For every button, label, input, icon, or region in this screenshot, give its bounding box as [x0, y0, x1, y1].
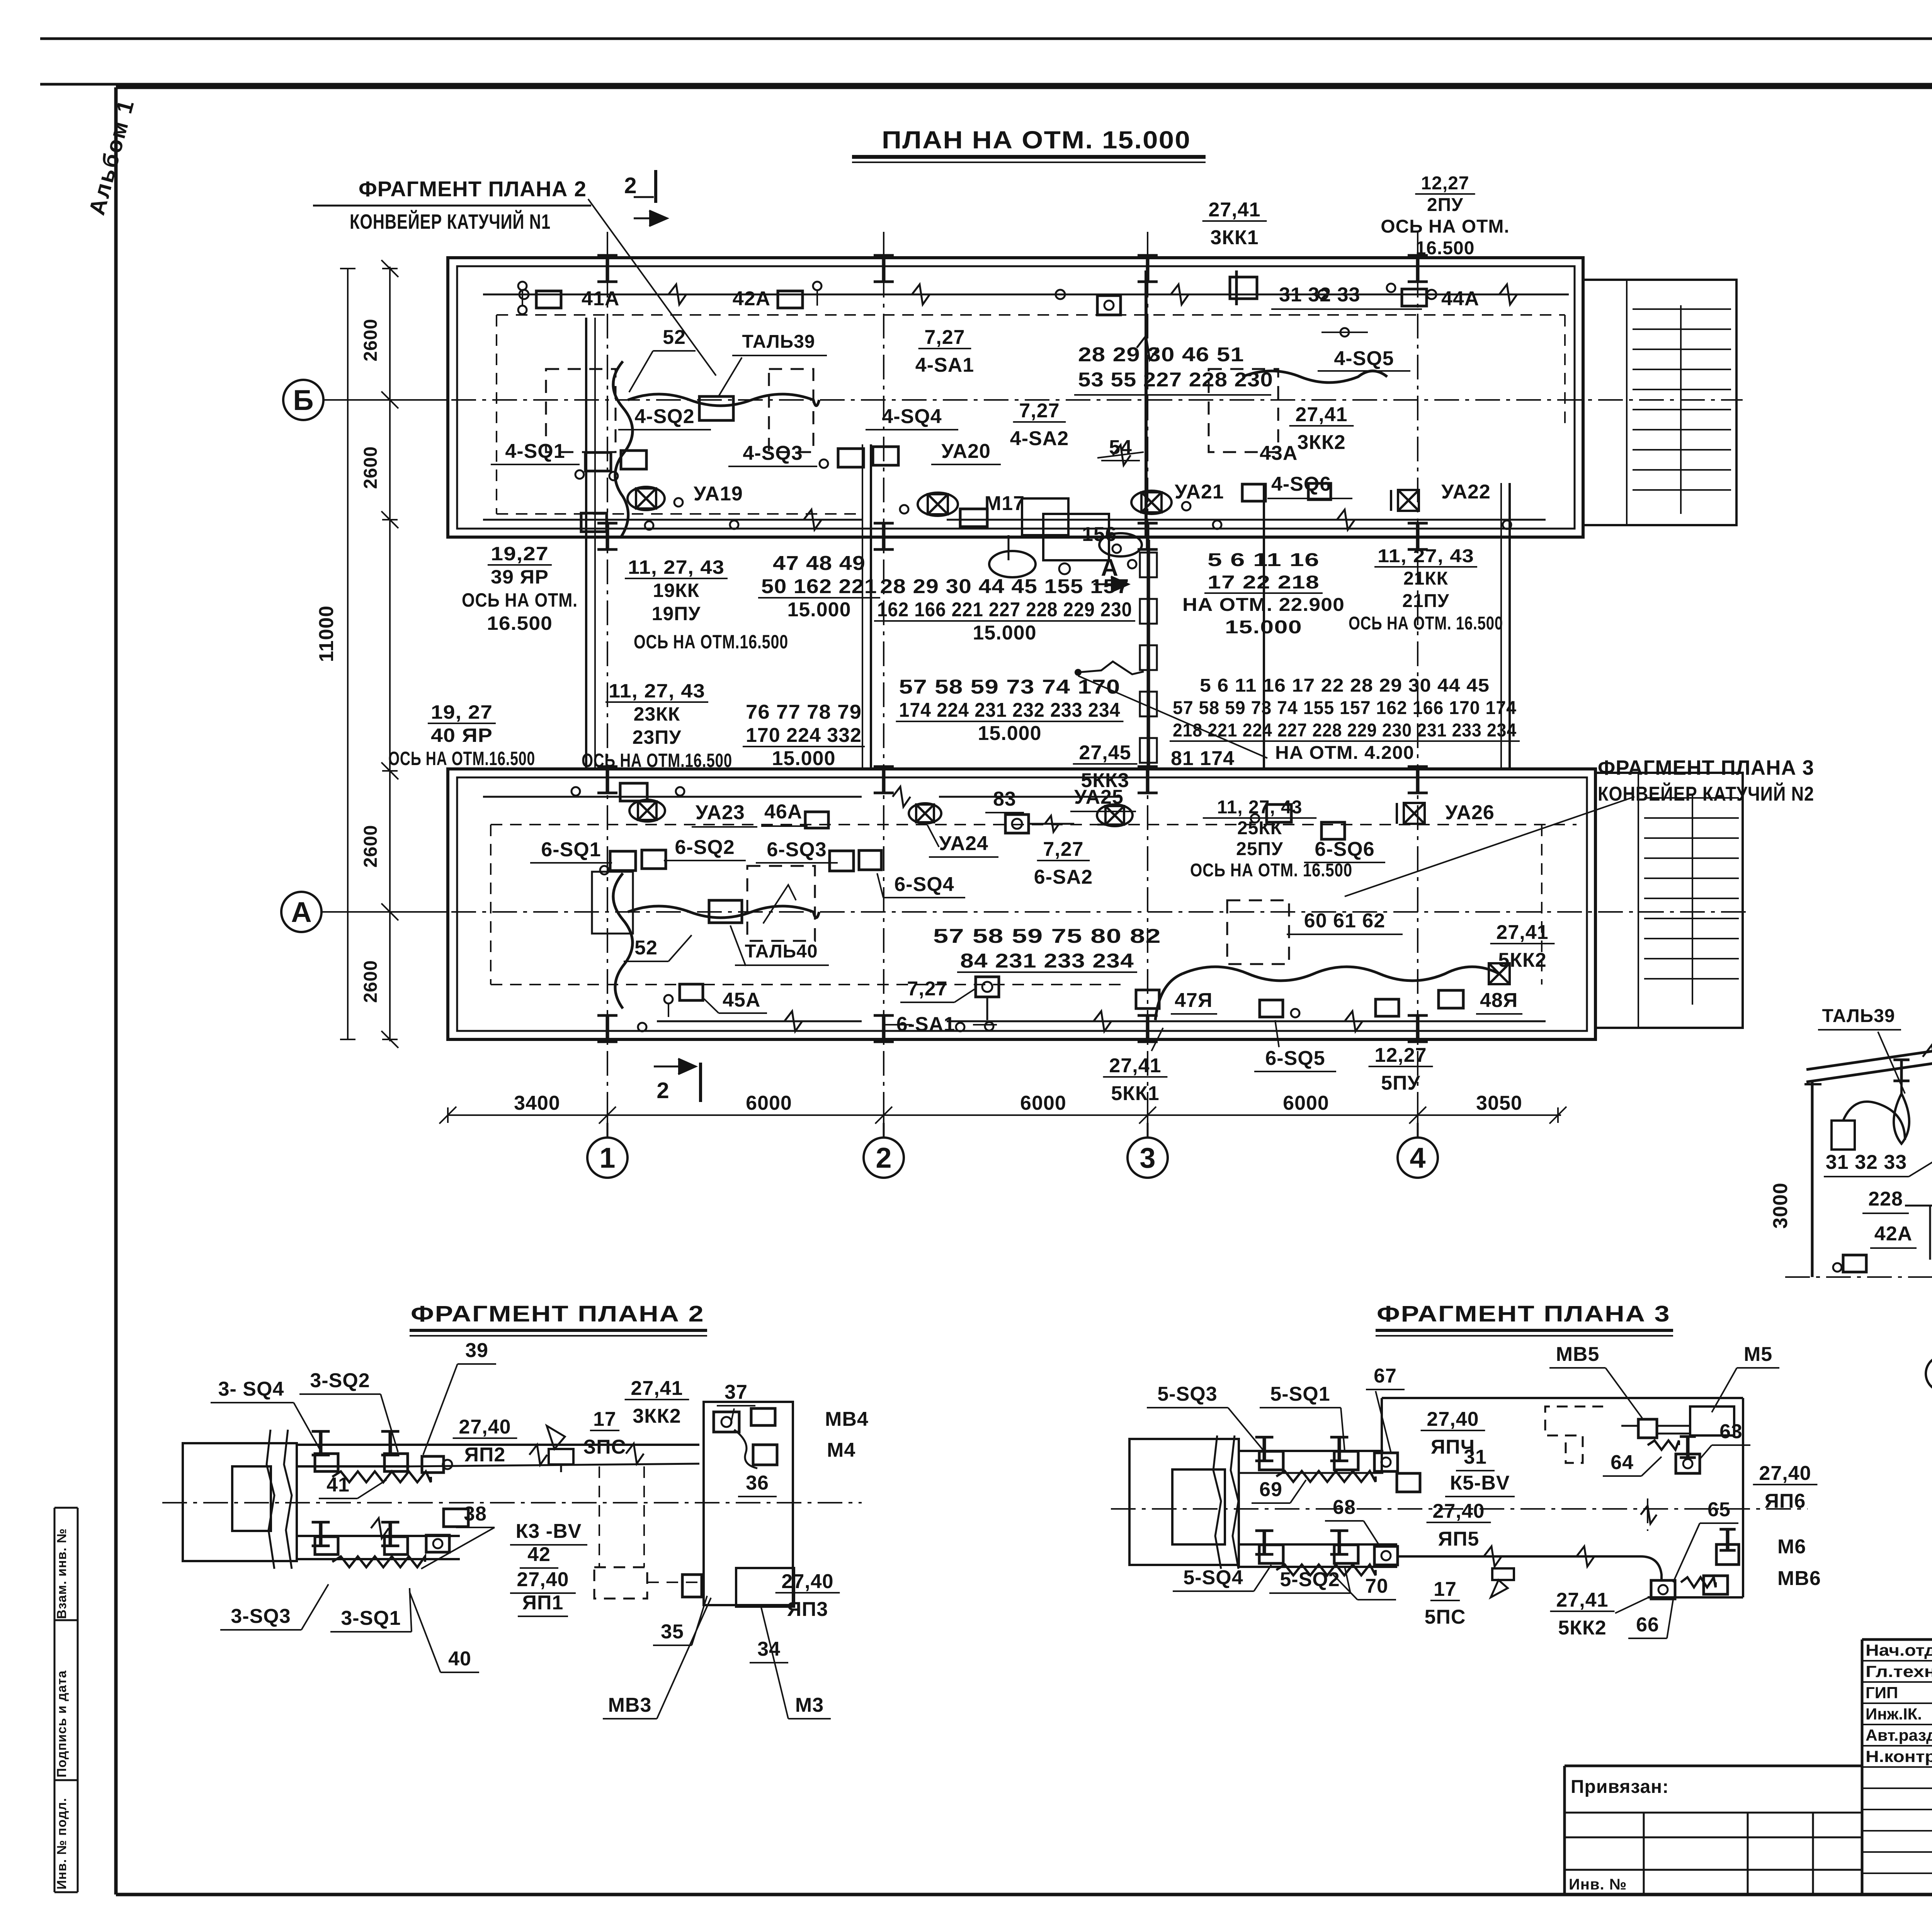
label МВ5: [1549, 1343, 1642, 1418]
switch 6-SQ1 пара: [600, 850, 666, 874]
frag3 bottom hangers: [1255, 1531, 1398, 1565]
device 83: [1005, 815, 1074, 833]
svg-text:ТАЛЬ40: ТАЛЬ40: [745, 941, 818, 962]
svg-text:УА23: УА23: [696, 801, 745, 824]
label 54: [1101, 436, 1140, 461]
svg-text:КОНВЕЙЕР КАТУЧИЙ N2: КОНВЕЙЕР КАТУЧИЙ N2: [1598, 782, 1814, 805]
lower bay cabinet 52: [592, 872, 633, 934]
svg-text:3КК2: 3КК2: [1297, 431, 1345, 454]
svg-text:54: 54: [1109, 436, 1132, 459]
solenoid УА19: [628, 487, 683, 510]
label ТАЛЬ39: [719, 332, 827, 396]
label М17: [985, 492, 1025, 515]
svg-text:15.000: 15.000: [772, 747, 835, 770]
label М3: [761, 1607, 831, 1719]
label 67: [1366, 1365, 1405, 1453]
svg-text:ОСЬ НА ОТМ.: ОСЬ НА ОТМ.: [1381, 216, 1509, 237]
svg-text:84 231 233 234: 84 231 233 234: [960, 950, 1134, 972]
frag3 panel frame: [1382, 1398, 1743, 1597]
device 44А: [1387, 284, 1427, 306]
svg-text:170 224 332: 170 224 332: [746, 724, 862, 747]
svg-text:15.000: 15.000: [787, 599, 851, 621]
flag 5ПС: [1491, 1568, 1514, 1597]
svg-text:3-SQ1: 3-SQ1: [341, 1607, 401, 1629]
hoist hook 1: [1893, 1060, 1910, 1144]
label 5-SQ3: [1147, 1383, 1265, 1453]
frag3 long cable: [1397, 1546, 1662, 1580]
upper hall bottom wire: [483, 509, 1546, 532]
grid circle 2: [864, 1123, 904, 1178]
svg-text:5 6 11 16 17 22 28 29 30 44 45: 5 6 11 16 17 22 28 29 30 44 45: [1200, 675, 1490, 696]
svg-text:2600: 2600: [361, 960, 381, 1003]
svg-text:4-SQ6: 4-SQ6: [1271, 473, 1331, 495]
frag2 panel squiggle: [734, 1430, 757, 1468]
svg-text:ТАЛЬ39: ТАЛЬ39: [742, 332, 815, 352]
svg-text:2600: 2600: [361, 446, 381, 489]
label 6-SQ6: [1304, 838, 1385, 862]
device 47Я: [1136, 990, 1159, 1009]
svg-text:6-SQ3: 6-SQ3: [767, 838, 827, 861]
label привязан: [1571, 1777, 1669, 1797]
grid axis 1 centerline: [607, 232, 608, 1136]
left dimension 11000: [315, 269, 355, 1039]
attachment box: [1565, 1766, 1862, 1895]
device 43А: [1308, 483, 1331, 500]
label 76 77 78 79: [743, 701, 865, 770]
label 48Я: [1476, 989, 1522, 1014]
device 4-SQ5 node: [1321, 328, 1368, 337]
label К5-BV: [1445, 1472, 1515, 1497]
svg-text:23ПУ: 23ПУ: [633, 726, 682, 748]
svg-text:М3: М3: [795, 1694, 824, 1716]
frag2 К3-BV box: [444, 1509, 468, 1527]
svg-text:6-SQ2: 6-SQ2: [675, 836, 735, 859]
label УА21: [1175, 481, 1224, 503]
frag2 machine body: [183, 1430, 297, 1569]
frag3 К5-BV box: [1397, 1473, 1420, 1492]
upper crane zone dashed: [497, 315, 1565, 514]
label fragment plan 2 head: [313, 177, 591, 233]
upper wall wire: [483, 284, 1569, 304]
frag3 bottom squiggle: [1276, 1565, 1376, 1575]
svg-text:45А: 45А: [723, 989, 760, 1011]
svg-text:39 ЯР: 39 ЯР: [491, 566, 549, 588]
svg-text:Авт.разд.: Авт.разд.: [1866, 1726, 1932, 1744]
svg-text:НА ОТМ. 4.200: НА ОТМ. 4.200: [1275, 743, 1414, 763]
label 27,41 3КК2: [1289, 403, 1354, 454]
frag3 cable box 66: [1651, 1580, 1675, 1599]
label 6-SA1: [885, 1013, 997, 1036]
album note: [84, 96, 139, 218]
label ТАЛЬ39 sec: [1818, 1006, 1905, 1094]
svg-text:5-SQ3: 5-SQ3: [1157, 1383, 1217, 1405]
left margin stamp column: [54, 1508, 78, 1892]
section devices left floor: [1833, 1179, 1932, 1272]
frag3 centerline: [1111, 1508, 1808, 1510]
frag2 top hangers: [312, 1431, 452, 1473]
wall columns: [597, 255, 1428, 1042]
label 11,27,43 25КК: [1203, 797, 1316, 859]
label 28 29 30 46 51: [1078, 344, 1244, 366]
label 3-SQ3: [220, 1584, 328, 1630]
grid circle Б sec: [1926, 1340, 1932, 1391]
frag3 top squiggle: [1276, 1471, 1376, 1482]
grid circle 3: [1128, 1123, 1168, 1178]
svg-text:ЯП3: ЯП3: [787, 1598, 828, 1621]
label 52 upper: [629, 326, 696, 392]
svg-text:2: 2: [624, 173, 637, 198]
solenoid УА23: [629, 800, 665, 821]
label 6-SQ4: [877, 873, 965, 898]
svg-text:6-SQ5: 6-SQ5: [1265, 1047, 1325, 1070]
svg-text:31 32 33: 31 32 33: [1826, 1151, 1907, 1173]
svg-text:МВ3: МВ3: [608, 1694, 652, 1716]
frag3 М6 squiggle: [1681, 1577, 1716, 1587]
svg-text:7,27: 7,27: [924, 326, 965, 349]
label 65: [1673, 1498, 1738, 1582]
frag3 М5 links: [1621, 1426, 1690, 1434]
svg-text:ОСЬ НА ОТМ.: ОСЬ НА ОТМ.: [462, 589, 578, 611]
label ТАЛЬ40: [730, 925, 829, 966]
solenoid УА26: [1397, 803, 1425, 824]
svg-text:162 166 221 227 228 229 230: 162 166 221 227 228 229 230: [877, 599, 1132, 621]
label 42А: [733, 287, 770, 310]
frag2 bottom conveyor: [297, 1518, 460, 1559]
svg-text:МВ4: МВ4: [825, 1408, 869, 1430]
label 27,41 5КК2 f3: [1550, 1589, 1652, 1639]
frag2 centerline: [162, 1502, 862, 1503]
label 27,41 5КК2 low: [1490, 921, 1555, 971]
svg-text:50 162 221: 50 162 221: [761, 575, 877, 598]
svg-text:46А: 46А: [764, 801, 802, 823]
svg-text:5КК2: 5КК2: [1498, 949, 1546, 971]
svg-text:МВ5: МВ5: [1556, 1343, 1600, 1366]
label 31 f3: [1456, 1446, 1495, 1471]
svg-text:М4: М4: [827, 1439, 855, 1461]
frag2 dashed block: [594, 1466, 699, 1599]
label 11,27,43 21КК: [1349, 546, 1503, 634]
hoist ТАЛЬ40 box: [709, 900, 742, 923]
frag3 dashed block: [1545, 1406, 1603, 1463]
svg-text:15.000: 15.000: [978, 722, 1041, 745]
device 6-SQ5: [1260, 1000, 1299, 1017]
svg-text:57 58 59 73 74 170: 57 58 59 73 74 170: [899, 676, 1121, 698]
label 4-SQ6: [1267, 473, 1352, 498]
title fragment 3: [1376, 1301, 1673, 1336]
label 31 32 33 sec: [1824, 1151, 1932, 1177]
svg-text:6000: 6000: [1020, 1092, 1066, 1114]
frag2 bottom hangers: [312, 1522, 449, 1554]
frag3 top hangers: [1255, 1437, 1398, 1471]
label 11,27,43 19КК: [625, 556, 728, 624]
label 27,45 5КК3: [1073, 742, 1138, 792]
svg-text:ОСЬ НА ОТМ.16.500: ОСЬ НА ОТМ.16.500: [388, 748, 535, 769]
switch 4-SQ1 пара: [575, 451, 646, 480]
title fragment 2: [410, 1301, 707, 1336]
svg-text:Привязан:: Привязан:: [1571, 1777, 1669, 1797]
label 6-SQ1: [530, 838, 612, 863]
svg-text:ФРАГМЕНТ ПЛАНА 3: ФРАГМЕНТ ПЛАНА 3: [1377, 1301, 1670, 1327]
svg-text:28 29 30 44 45 155 157: 28 29 30 44 45 155 157: [880, 575, 1129, 598]
lower hall bottom wire: [638, 1011, 1546, 1031]
svg-text:ЯП1: ЯП1: [522, 1592, 564, 1614]
label 40: [410, 1592, 479, 1672]
frag2 М3 box: [736, 1568, 794, 1607]
svg-text:27,41: 27,41: [631, 1377, 683, 1400]
label 39: [423, 1339, 496, 1455]
svg-text:27,41: 27,41: [1109, 1054, 1161, 1077]
frag2 top squiggle: [332, 1471, 431, 1482]
frag3 machine body: [1129, 1435, 1239, 1569]
bottom dimension chain: [439, 1092, 1566, 1124]
svg-text:УА26: УА26: [1445, 801, 1495, 824]
label МВ3: [603, 1598, 711, 1719]
device 48Я: [1439, 990, 1463, 1008]
cable riser axis 3: [1075, 540, 1267, 769]
svg-text:5 6 11 16: 5 6 11 16: [1207, 550, 1320, 570]
svg-text:11, 27, 43: 11, 27, 43: [1378, 546, 1474, 566]
section mark 2 bottom: [654, 1059, 701, 1103]
label 12,27 2ПУ: [1381, 173, 1509, 259]
label 4-SQ4: [866, 405, 958, 430]
svg-text:19КК: 19КК: [653, 580, 700, 601]
motor М17 group: [989, 498, 1142, 577]
grid circle 4: [1398, 1123, 1438, 1178]
label 5-SQ2: [1269, 1567, 1350, 1593]
label 12,27 5ПУ: [1369, 1044, 1433, 1094]
svg-text:ФРАГМЕНТ ПЛАНА 3: ФРАГМЕНТ ПЛАНА 3: [1598, 756, 1814, 779]
frag2 МВ4 box: [751, 1408, 775, 1425]
svg-text:42А: 42А: [733, 287, 770, 310]
svg-text:60 61 62: 60 61 62: [1304, 910, 1385, 932]
svg-text:5КК1: 5КК1: [1111, 1082, 1159, 1105]
svg-text:228: 228: [1868, 1188, 1903, 1210]
svg-text:Взам. инв. №: Взам. инв. №: [54, 1528, 69, 1619]
svg-text:ПЛАН НА ОТМ. 15.000: ПЛАН НА ОТМ. 15.000: [882, 126, 1191, 154]
label 3-SQ1: [330, 1588, 412, 1632]
label 83: [985, 788, 1024, 813]
svg-text:53 55 227 228 230: 53 55 227 228 230: [1078, 369, 1273, 391]
title block frame: [1565, 1639, 1932, 1895]
svg-text:6000: 6000: [746, 1092, 792, 1114]
svg-text:НА ОТМ. 22.900: НА ОТМ. 22.900: [1182, 595, 1345, 615]
frag3 МВ5 box: [1638, 1419, 1657, 1438]
svg-text:2: 2: [876, 1142, 891, 1174]
svg-text:38: 38: [464, 1503, 487, 1525]
label 41: [319, 1474, 386, 1498]
fragment 3 leader: [1345, 797, 1634, 896]
label 27,40 ЯП6: [1753, 1462, 1818, 1512]
svg-text:4-SA2: 4-SA2: [1010, 427, 1069, 450]
lower hall stairwell: [1595, 773, 1743, 1028]
svg-text:5-SQ2: 5-SQ2: [1280, 1568, 1340, 1591]
svg-text:27,41: 27,41: [1556, 1589, 1608, 1611]
label 57 58 59 lower: [933, 925, 1161, 972]
svg-text:УА19: УА19: [694, 483, 743, 505]
svg-text:3КК1: 3КК1: [1210, 226, 1259, 249]
svg-text:УА25: УА25: [1074, 786, 1124, 808]
label 4-SQ1: [491, 440, 580, 464]
svg-text:А: А: [291, 896, 311, 928]
label ЯП1: [518, 1592, 568, 1616]
grid circle А: [281, 892, 448, 932]
svg-text:27,40: 27,40: [1427, 1408, 1479, 1430]
svg-text:42: 42: [527, 1543, 551, 1566]
svg-text:7,27: 7,27: [1019, 400, 1060, 422]
label 228 sec: [1862, 1188, 1909, 1213]
label 41А: [582, 287, 619, 310]
svg-text:156: 156: [1082, 523, 1117, 546]
lower hall top wire: [483, 783, 1121, 807]
label 27,40 ЯП2: [453, 1416, 517, 1466]
svg-text:27,41: 27,41: [1208, 199, 1260, 221]
svg-text:19,27: 19,27: [491, 543, 549, 565]
svg-text:31: 31: [1464, 1446, 1487, 1468]
device 6-SA2: [1097, 824, 1121, 826]
svg-text:2: 2: [656, 1078, 669, 1103]
svg-text:3КК2: 3КК2: [633, 1405, 681, 1427]
svg-text:М17: М17: [985, 492, 1025, 515]
frag3 dash leader: [1641, 1498, 1656, 1531]
svg-text:УА22: УА22: [1441, 481, 1491, 503]
svg-text:37: 37: [724, 1381, 748, 1403]
label УА19: [694, 483, 743, 505]
frag2 МВ3 box: [682, 1575, 702, 1597]
svg-text:3050: 3050: [1476, 1092, 1522, 1114]
svg-text:4-SQ5: 4-SQ5: [1334, 347, 1394, 370]
solenoid УА20: [900, 493, 958, 516]
svg-text:УА21: УА21: [1175, 481, 1224, 503]
svg-text:81 174: 81 174: [1171, 747, 1235, 770]
svg-text:ФРАГМЕНТ ПЛАНА 2: ФРАГМЕНТ ПЛАНА 2: [411, 1301, 704, 1327]
device 46А: [805, 812, 828, 828]
device 45А: [664, 984, 703, 1017]
svg-text:17 22 218: 17 22 218: [1207, 572, 1320, 593]
label 5 6 11 16 22900: [1182, 550, 1345, 638]
label 81 174: [1171, 747, 1235, 770]
svg-text:11, 27, 43: 11, 27, 43: [609, 680, 705, 702]
svg-text:К3 -BV: К3 -BV: [516, 1520, 582, 1543]
svg-text:21ПУ: 21ПУ: [1402, 591, 1449, 611]
device 7,27 lower: [976, 977, 999, 1031]
frag3 М5 box: [1690, 1406, 1734, 1435]
svg-text:27,40: 27,40: [781, 1570, 833, 1593]
svg-text:43А: 43А: [1260, 442, 1298, 464]
label 60 61 62: [1287, 910, 1403, 934]
svg-text:28 29 30 46 51: 28 29 30 46 51: [1078, 344, 1244, 366]
svg-text:6-SQ4: 6-SQ4: [894, 873, 954, 896]
label 47Я: [1171, 989, 1217, 1014]
svg-text:67: 67: [1374, 1365, 1397, 1387]
frag2 М4 box: [753, 1445, 777, 1465]
grid axis 2 centerline: [883, 232, 884, 1136]
svg-text:27,40: 27,40: [1759, 1462, 1811, 1485]
svg-text:25КК: 25КК: [1237, 818, 1282, 838]
axis Б centerline: [328, 399, 1743, 401]
hoist ТАЛЬ39 cable: [613, 361, 819, 537]
label 27,40 ЯП4: [1421, 1408, 1485, 1458]
svg-text:23КК: 23КК: [634, 703, 680, 725]
label К3-BV f2: [510, 1520, 587, 1545]
upper dashed bay 1: [546, 369, 616, 452]
label 53 55 227 228 230: [1074, 369, 1273, 395]
view mark А: [1094, 554, 1128, 592]
label 156: [1082, 523, 1117, 546]
label 52 lower: [624, 935, 692, 961]
label 44А: [1441, 287, 1479, 310]
svg-text:Гл.техн.: Гл.техн.: [1866, 1662, 1932, 1680]
label 7,27 4-SA2: [1010, 400, 1069, 450]
label 5-SQ4: [1173, 1565, 1271, 1591]
svg-text:19, 27: 19, 27: [431, 701, 493, 723]
label 3-SQ2: [299, 1369, 398, 1452]
svg-text:40 ЯР: 40 ЯР: [431, 724, 493, 746]
svg-text:Н.контр.: Н.контр.: [1866, 1747, 1932, 1765]
svg-text:63: 63: [1719, 1420, 1743, 1443]
svg-text:27,40: 27,40: [517, 1568, 569, 1591]
lower long cable wave: [1155, 967, 1499, 1020]
svg-text:Б: Б: [293, 384, 313, 416]
label big row 4.200: [1170, 675, 1520, 763]
svg-text:40: 40: [448, 1648, 471, 1670]
svg-text:27,40: 27,40: [1432, 1500, 1485, 1522]
section 3КК1 device: [1832, 1102, 1905, 1150]
label УА26: [1445, 801, 1495, 824]
label УА25: [1070, 786, 1136, 811]
device 25КК cluster: [1251, 804, 1291, 823]
svg-text:2ПУ: 2ПУ: [1427, 195, 1463, 215]
hoist ТАЛЬ39 box: [699, 396, 733, 420]
svg-text:57 58 59 75 80 82: 57 58 59 75 80 82: [933, 925, 1161, 947]
axis А centerline: [328, 911, 1750, 913]
svg-text:3000: 3000: [1769, 1182, 1792, 1229]
solenoid УА24: [909, 803, 941, 823]
svg-text:Нач.отд.: Нач.отд.: [1866, 1641, 1932, 1659]
switch 4-SQ3 пара: [820, 447, 898, 468]
label ось на отм 16.500 low: [1190, 860, 1352, 881]
right gallery walls: [1264, 483, 1510, 769]
svg-text:17: 17: [593, 1408, 616, 1430]
upper hall stairwell: [1583, 280, 1736, 525]
hoist ТАЛЬ40 cable: [613, 873, 819, 1009]
label УА23: [692, 801, 757, 827]
label 5-SQ1: [1260, 1383, 1345, 1451]
label 4-SQ5: [1318, 347, 1410, 371]
label 28 29 30 row: [874, 575, 1135, 644]
svg-text:44А: 44А: [1441, 287, 1479, 310]
label 69: [1252, 1478, 1306, 1503]
svg-text:27,41: 27,41: [1496, 921, 1548, 944]
svg-text:ОСЬ НА ОТМ. 16.500: ОСЬ НА ОТМ. 16.500: [1349, 613, 1503, 634]
svg-text:ОСЬ НА ОТМ.16.500: ОСЬ НА ОТМ.16.500: [582, 750, 732, 771]
svg-text:Подпись и дата: Подпись и дата: [54, 1670, 69, 1777]
label 27,41 5КК1 low: [1103, 1028, 1168, 1105]
svg-text:6-SQ1: 6-SQ1: [541, 838, 601, 861]
svg-text:ЯП2: ЯП2: [464, 1444, 506, 1466]
svg-text:4-SQ3: 4-SQ3: [743, 442, 803, 464]
label 36: [738, 1472, 777, 1497]
section floor line: [1785, 1276, 1932, 1278]
flag ЗПС: [547, 1426, 573, 1472]
svg-text:1: 1: [599, 1142, 615, 1174]
svg-text:М6: М6: [1777, 1536, 1806, 1558]
svg-text:70: 70: [1365, 1575, 1388, 1597]
label 27,40 ЯП3: [776, 1570, 840, 1621]
svg-text:МВ6: МВ6: [1777, 1567, 1821, 1590]
svg-text:36: 36: [746, 1472, 769, 1494]
svg-text:3400: 3400: [514, 1092, 560, 1114]
label 6-SQ3: [756, 838, 838, 863]
